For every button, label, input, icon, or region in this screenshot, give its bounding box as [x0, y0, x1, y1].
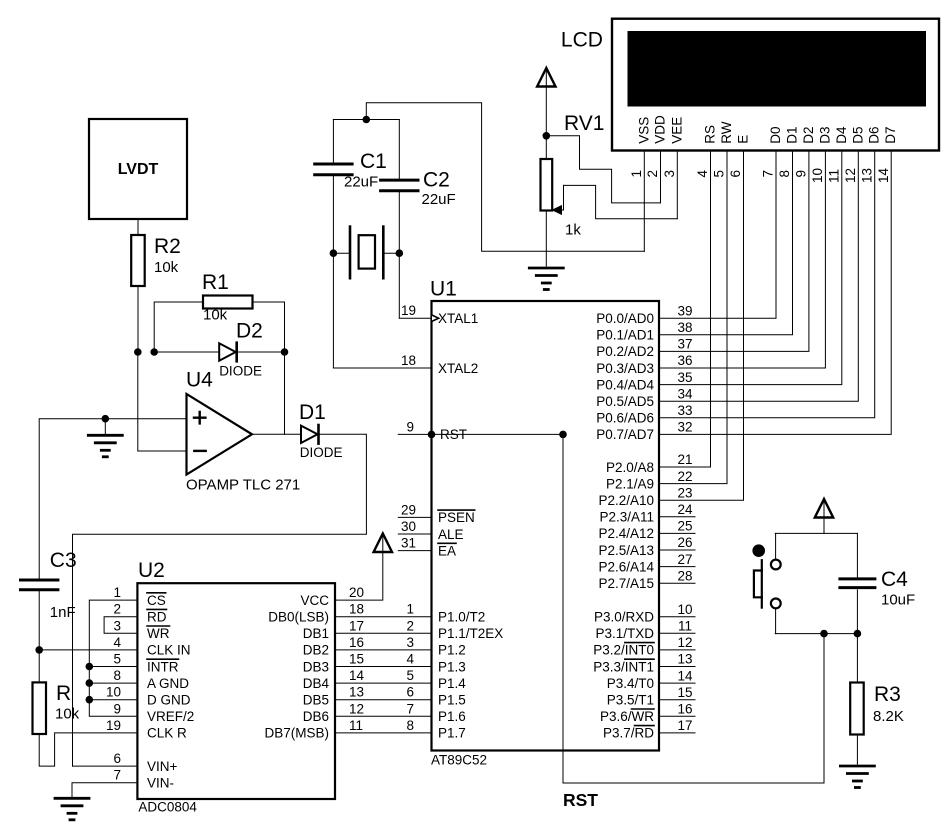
U1 pin 16 P3.6/WR [600, 702, 695, 725]
U2 pin 17 DB1 / wire to U1 P1 [303, 618, 432, 641]
LCD pin 2 VDD label [645, 115, 667, 178]
wire bridge to ground rail [366, 103, 644, 252]
svg-text:C2: C2 [423, 169, 450, 192]
U1 pin 15 P3.5/T1 [607, 685, 695, 708]
U1 pin 23 P2.2/A10 [598, 151, 743, 509]
U2 pin 14 DB4 / wire to U1 P1 [303, 668, 432, 691]
wire feedback to op-amp output [284, 352, 286, 434]
svg-text:P1.1/T2EX: P1.1/T2EX [438, 626, 503, 641]
IC U1 AT89C52 [430, 278, 659, 768]
svg-text:P0.6/AD6: P0.6/AD6 [596, 411, 654, 426]
svg-text:R3: R3 [874, 683, 901, 706]
svg-text:P0.1/AD1: P0.1/AD1 [596, 328, 654, 343]
wire R3 bottom lead [856, 735, 858, 765]
node crystal left [330, 249, 338, 257]
node ground tap [102, 415, 110, 423]
U2 pin 8 A GND [113, 668, 189, 691]
wire VIN- to ground [72, 783, 137, 797]
svg-text:1: 1 [113, 585, 121, 600]
node C4/R3 [854, 630, 862, 638]
U1 pin 37 P0.2/AD2 / wire to LCD D2 [596, 151, 809, 360]
svg-text:C4: C4 [881, 568, 908, 591]
LCD pin 12 D5 label [843, 126, 865, 183]
svg-text:22uF: 22uF [344, 174, 378, 191]
U1 pin 22 P2.1/A9 [606, 151, 727, 492]
wire C2 column top [398, 120, 400, 179]
svg-text:1: 1 [406, 602, 414, 617]
LCD pin 4 RS label [695, 125, 717, 178]
svg-text:10: 10 [810, 168, 825, 183]
U1 pin 38 P0.1/AD1 / wire to LCD D1 [596, 151, 792, 343]
svg-text:RV1: RV1 [564, 112, 604, 135]
U1 pin 12 P3.2/INT0 [593, 635, 695, 658]
wire D2 anode [154, 351, 219, 353]
svg-text:R: R [56, 682, 71, 705]
U2 pin 16 DB2 / wire to U1 P1 [303, 635, 432, 658]
wire XTAL1 from C2 [398, 253, 400, 318]
svg-text:D6: D6 [867, 126, 882, 143]
svg-text:P1.4: P1.4 [438, 676, 466, 691]
wire RST through U1 body [432, 433, 564, 435]
svg-text:RW: RW [719, 121, 734, 144]
svg-text:A GND: A GND [147, 676, 189, 691]
svg-text:LCD: LCD [561, 28, 603, 51]
svg-text:15: 15 [677, 685, 692, 700]
svg-text:P3.6/WR: P3.6/WR [600, 709, 654, 724]
svg-text:P0.3/AD3: P0.3/AD3 [596, 361, 654, 376]
LCD module LM016L [561, 19, 939, 151]
svg-text:DB3: DB3 [303, 659, 329, 674]
U1 pin 13 P3.3/INT1 [593, 652, 695, 675]
node D2 cathode / feedback [281, 348, 289, 356]
wire XTAL2 from C1 [332, 253, 334, 368]
svg-text:19: 19 [106, 718, 121, 733]
svg-text:10k: 10k [55, 706, 80, 723]
U1 pin 34 P0.5/AD5 / wire to LCD D5 [596, 151, 858, 410]
svg-text:CS: CS [147, 593, 166, 608]
svg-text:4: 4 [695, 170, 710, 178]
LVDT transducer block [89, 119, 187, 219]
svg-text:21: 21 [677, 452, 692, 467]
ground (R3) [840, 766, 874, 788]
svg-text:10: 10 [106, 685, 121, 700]
LCD pin 7 D0 label [761, 126, 783, 177]
svg-text:26: 26 [677, 535, 692, 550]
resistor R [33, 682, 80, 734]
svg-text:32: 32 [677, 420, 692, 435]
svg-text:33: 33 [677, 403, 692, 418]
svg-text:P2.6/A14: P2.6/A14 [598, 559, 654, 574]
U2 pin 1 CS [113, 585, 165, 608]
svg-text:VREF/2: VREF/2 [147, 709, 194, 724]
svg-text:R1: R1 [202, 271, 229, 294]
svg-text:19: 19 [401, 303, 416, 318]
svg-text:14: 14 [349, 668, 365, 683]
svg-text:12: 12 [677, 635, 692, 650]
svg-text:10: 10 [677, 602, 692, 617]
wire node to inverting input [138, 352, 187, 451]
svg-text:DIODE: DIODE [219, 364, 262, 379]
U1 pin 18 XTAL2 [401, 353, 478, 376]
op-amp U4 OPAMP TLC 271 [186, 369, 300, 494]
svg-text:17: 17 [349, 618, 364, 633]
U1 pin 35 P0.4/AD4 / wire to LCD D4 [596, 151, 842, 393]
wire VDD staircase to power [546, 136, 660, 203]
svg-text:D7: D7 [883, 126, 898, 143]
node RST riser [559, 431, 567, 439]
svg-text:11: 11 [827, 169, 842, 183]
svg-text:P0.2/AD2: P0.2/AD2 [596, 344, 654, 359]
node R2/D2 junction [134, 348, 142, 356]
svg-text:U2: U2 [138, 559, 165, 582]
svg-text:P2.5/A13: P2.5/A13 [598, 543, 654, 558]
capacitor C2 [381, 169, 456, 209]
power symbol (reset VCC) [815, 499, 833, 518]
svg-text:7: 7 [761, 170, 776, 178]
svg-text:3: 3 [406, 635, 414, 650]
node crystal right [396, 249, 404, 257]
svg-text:24: 24 [677, 502, 693, 517]
svg-text:DB4: DB4 [303, 676, 330, 691]
svg-text:P3.7/RD: P3.7/RD [603, 726, 654, 741]
U1 pin 25 P2.4/A12 [598, 519, 695, 542]
svg-text:1k: 1k [565, 222, 581, 239]
wire D1 output to U2 VIN+ [73, 434, 367, 766]
svg-text:35: 35 [677, 370, 692, 385]
U2 pin 12 DB6 / wire to U1 P1 [303, 701, 432, 724]
svg-text:8: 8 [113, 668, 121, 683]
wire R top lead [38, 650, 40, 683]
LCD pin 10 D3 label [810, 126, 832, 183]
svg-text:17: 17 [677, 718, 692, 733]
svg-text:38: 38 [677, 320, 692, 335]
svg-text:DB0(LSB): DB0(LSB) [268, 610, 329, 625]
node A GND [86, 679, 94, 687]
U2 pin 4 CLK IN [113, 635, 190, 658]
svg-text:12: 12 [349, 701, 364, 716]
svg-text:WR: WR [147, 626, 170, 641]
U1 pin 19 XTAL1 [401, 303, 478, 326]
svg-text:6: 6 [728, 170, 743, 178]
svg-text:C1: C1 [360, 150, 387, 173]
power symbol stem (RV1) [545, 70, 547, 159]
wire RV1 bottom to ground rail [545, 211, 547, 267]
svg-text:RS: RS [703, 125, 718, 144]
svg-text:9: 9 [794, 170, 809, 178]
resistor R2 [131, 235, 181, 286]
ground (op-amp + input) [88, 435, 122, 457]
svg-text:14: 14 [876, 167, 891, 183]
node R1/D2 anode [150, 348, 158, 356]
U1 pin 11 P3.1/TXD [595, 619, 695, 642]
ground (U2 VIN-) [55, 798, 89, 820]
wire ground stem [104, 419, 106, 435]
svg-text:D0: D0 [768, 126, 783, 143]
svg-text:P2.4/A12: P2.4/A12 [598, 526, 654, 541]
svg-text:ALE: ALE [438, 527, 464, 542]
svg-text:DB6: DB6 [303, 709, 329, 724]
power symbol stem (reset) [823, 501, 825, 533]
svg-text:7: 7 [406, 701, 414, 716]
node RST at U1 edge [428, 431, 436, 439]
svg-text:P3.4/T0: P3.4/T0 [607, 676, 654, 691]
svg-text:P2.7/A15: P2.7/A15 [598, 576, 654, 591]
svg-text:P0.4/AD4: P0.4/AD4 [596, 377, 654, 392]
svg-text:3: 3 [662, 170, 677, 178]
diode D1 [299, 401, 343, 460]
svg-text:5: 5 [406, 668, 414, 683]
svg-text:P1.0/T2: P1.0/T2 [438, 610, 485, 625]
svg-text:D1: D1 [785, 126, 800, 143]
svg-text:5: 5 [113, 652, 121, 667]
svg-text:ADC0804: ADC0804 [138, 800, 197, 815]
U2 pin 11 DB7(MSB) / wire to U1 P1 [264, 718, 431, 741]
svg-text:9: 9 [406, 419, 414, 434]
svg-text:5: 5 [712, 170, 727, 178]
svg-text:1nF: 1nF [50, 604, 76, 621]
wire A GND stub [89, 682, 137, 684]
wire D2 cathode [238, 351, 285, 353]
U2 pin 18 DB0(LSB) / wire to U1 P1 [268, 602, 431, 625]
svg-text:DIODE: DIODE [300, 445, 343, 460]
svg-text:37: 37 [677, 337, 692, 352]
svg-text:E: E [736, 135, 751, 144]
U1 pin 31 EA [398, 536, 456, 559]
svg-text:16: 16 [349, 635, 364, 650]
svg-text:18: 18 [349, 602, 364, 617]
U2 pin 5 INTR [113, 652, 178, 675]
U2 pin 9 VREF/2 [113, 701, 194, 724]
power symbol (U1/U2 VCC) [374, 534, 392, 553]
U1 pin 28 P2.7/A15 [598, 568, 695, 591]
diode D2 [219, 320, 263, 379]
U2 pin 13 DB5 / wire to U1 P1 [303, 685, 432, 708]
svg-text:DB5: DB5 [303, 693, 329, 708]
LCD pin 5 RW label [712, 121, 734, 177]
svg-text:4: 4 [113, 635, 121, 650]
wire LCD VDD down [660, 151, 662, 203]
wire to RST line [823, 634, 825, 783]
U1 pin 36 P0.3/AD3 / wire to LCD D3 [596, 151, 825, 376]
svg-text:11: 11 [349, 718, 363, 733]
U1 pin 9 RST [398, 419, 467, 442]
capacitor C3 [21, 549, 77, 621]
svg-text:P1.6: P1.6 [438, 709, 466, 724]
svg-text:P2.2/A10: P2.2/A10 [598, 493, 654, 508]
wire wiper to LCD VEE [564, 185, 678, 218]
svg-text:8.2K: 8.2K [873, 708, 904, 725]
svg-text:CLK R: CLK R [147, 726, 187, 741]
svg-text:D4: D4 [834, 126, 849, 144]
wire VCC to power [335, 536, 383, 601]
svg-text:C3: C3 [50, 549, 77, 572]
svg-text:14: 14 [677, 668, 693, 683]
svg-text:22: 22 [677, 469, 692, 484]
svg-text:P0.7/AD7: P0.7/AD7 [596, 427, 654, 442]
svg-text:D5: D5 [850, 126, 865, 143]
svg-text:22uF: 22uF [422, 191, 456, 208]
wire R1 left lead [154, 302, 203, 352]
svg-text:D3: D3 [817, 126, 832, 143]
svg-text:VSS: VSS [636, 117, 651, 144]
wire LVDT to R2 [137, 219, 139, 235]
svg-text:6: 6 [113, 751, 121, 766]
svg-text:25: 25 [677, 519, 692, 534]
U2 pin 10 D GND [106, 685, 191, 708]
wire INTR stub [89, 666, 137, 668]
wire R2 to node [137, 286, 139, 352]
svg-text:31: 31 [401, 536, 416, 551]
svg-text:27: 27 [677, 552, 692, 567]
svg-text:39: 39 [677, 303, 692, 318]
wire R1 right lead [253, 302, 285, 352]
svg-text:P1.7: P1.7 [438, 726, 466, 741]
svg-text:20: 20 [349, 585, 364, 600]
svg-text:1: 1 [629, 170, 644, 178]
svg-text:15: 15 [349, 652, 364, 667]
U1 pin 17 P3.7/RD [603, 718, 695, 741]
U1 pin 39 P0.0/AD0 / wire to LCD D0 [596, 151, 776, 327]
svg-text:RST: RST [563, 790, 598, 810]
wire reset top rail [775, 532, 857, 534]
resistor R3 [850, 683, 904, 735]
svg-text:EA: EA [438, 543, 456, 558]
svg-text:P3.2/INT0: P3.2/INT0 [593, 643, 654, 658]
svg-text:13: 13 [859, 168, 874, 183]
svg-text:2: 2 [406, 618, 414, 633]
svg-text:2: 2 [113, 602, 121, 617]
wire C1 to crystal node [332, 176, 334, 253]
svg-text:DB2: DB2 [303, 643, 329, 658]
svg-text:36: 36 [677, 353, 692, 368]
svg-text:DB1: DB1 [303, 626, 329, 641]
LCD pin 1 VSS label [629, 117, 651, 178]
node reset/RST [820, 630, 828, 638]
svg-text:18: 18 [401, 353, 416, 368]
node CLK IN / C3 / R [35, 646, 43, 654]
crystal X1 [333, 227, 399, 279]
svg-text:AT89C52: AT89C52 [431, 753, 487, 768]
wire C2 to crystal node [398, 192, 400, 253]
svg-text:CLK IN: CLK IN [147, 643, 191, 658]
wire LCD VEE down [676, 151, 678, 219]
wire CLK IN [39, 649, 137, 651]
svg-text:12: 12 [843, 168, 858, 183]
LCD pin 14 D7 label [876, 126, 898, 183]
svg-text:7: 7 [113, 768, 121, 783]
LCD pin 13 D6 label [859, 126, 881, 183]
U1 pin 21 P2.0/A8 [606, 151, 711, 475]
svg-text:6: 6 [406, 685, 414, 700]
svg-text:8: 8 [406, 718, 414, 733]
svg-text:11: 11 [678, 619, 692, 634]
node INTR [86, 663, 94, 671]
svg-text:OPAMP TLC 271: OPAMP TLC 271 [186, 477, 300, 494]
svg-text:P1.3: P1.3 [438, 659, 466, 674]
svg-text:9: 9 [113, 701, 121, 716]
wire VIN+ stub [73, 765, 138, 767]
wire LCD VSS to ground rail [643, 151, 645, 252]
svg-text:VIN+: VIN+ [147, 759, 178, 774]
svg-text:D2: D2 [236, 320, 263, 343]
wire RST down to reset circuit [563, 434, 824, 783]
svg-text:10uF: 10uF [881, 592, 915, 609]
U1 pin 32 P0.7/AD7 / wire to LCD D7 [596, 151, 891, 443]
svg-text:U1: U1 [430, 278, 457, 301]
LCD pin 8 D1 label [777, 126, 799, 177]
svg-text:LVDT: LVDT [118, 161, 159, 178]
wire op-amp output [252, 433, 301, 435]
U2 pin 15 DB3 / wire to U1 P1 [303, 652, 432, 675]
IC U2 ADC0804 [137, 559, 335, 815]
svg-text:PSEN: PSEN [438, 510, 475, 525]
svg-text:P0.0/AD0: P0.0/AD0 [596, 311, 654, 326]
svg-text:2: 2 [645, 170, 660, 178]
svg-text:P0.5/AD5: P0.5/AD5 [596, 394, 654, 409]
U1 pin 26 P2.5/A13 [598, 535, 695, 558]
svg-text:8: 8 [777, 170, 792, 178]
svg-text:P2.3/A11: P2.3/A11 [599, 510, 654, 525]
svg-text:P1.5: P1.5 [438, 693, 466, 708]
svg-text:16: 16 [677, 702, 692, 717]
svg-text:4: 4 [406, 652, 414, 667]
svg-text:10k: 10k [154, 259, 179, 276]
capacitor C1 [315, 150, 387, 191]
svg-text:D2: D2 [801, 126, 816, 143]
svg-text:P1.2: P1.2 [438, 643, 466, 658]
wire C1-C2 top bridge [333, 119, 399, 121]
svg-text:28: 28 [677, 568, 692, 583]
svg-text:DB7(MSB): DB7(MSB) [264, 726, 329, 741]
wire C3 to CLK IN node [38, 591, 40, 650]
wire C4 top lead [856, 533, 858, 577]
U1 pin 27 P2.6/A14 [598, 552, 695, 575]
LCD pin 3 VEE label [662, 117, 684, 178]
U2 pin 20 VCC [300, 585, 364, 608]
svg-text:10k: 10k [203, 307, 228, 324]
svg-text:VDD: VDD [653, 115, 668, 144]
svg-text:29: 29 [401, 502, 416, 517]
wire C4 bottom lead [856, 590, 858, 634]
svg-text:23: 23 [677, 485, 692, 500]
wire RD-WR loop [104, 617, 137, 634]
U1 pin 24 P2.3/A11 [599, 502, 695, 525]
U2 pin 6 VIN+ [113, 751, 177, 774]
svg-text:VEE: VEE [669, 117, 684, 144]
svg-text:P2.1/A9: P2.1/A9 [606, 476, 654, 491]
U1 pin 10 P3.0/RXD [594, 602, 695, 625]
svg-text:P2.0/A8: P2.0/A8 [606, 460, 654, 475]
U2 pin 2 RD [113, 602, 166, 625]
svg-text:P3.1/TXD: P3.1/TXD [595, 626, 654, 641]
svg-text:VCC: VCC [300, 593, 329, 608]
node RV1/VDD tap [543, 132, 551, 140]
wire non-inverting input rail (ground / C3) [39, 419, 186, 579]
U2 pin 19 CLK R [106, 718, 187, 741]
U2 pin 7 VIN- [113, 768, 174, 791]
svg-text:P3.5/T1: P3.5/T1 [607, 693, 654, 708]
node D GND [86, 696, 94, 704]
wire R3 top lead [856, 634, 858, 683]
svg-text:D GND: D GND [147, 693, 191, 708]
svg-text:XTAL1: XTAL1 [438, 311, 478, 326]
wire R bottom to CLK R [39, 733, 137, 766]
svg-text:INTR: INTR [147, 659, 179, 674]
LCD pin 9 D2 label [794, 126, 816, 177]
wire D GND stub [89, 699, 137, 701]
push button (reset) [752, 533, 780, 633]
svg-text:VIN-: VIN- [147, 776, 174, 791]
